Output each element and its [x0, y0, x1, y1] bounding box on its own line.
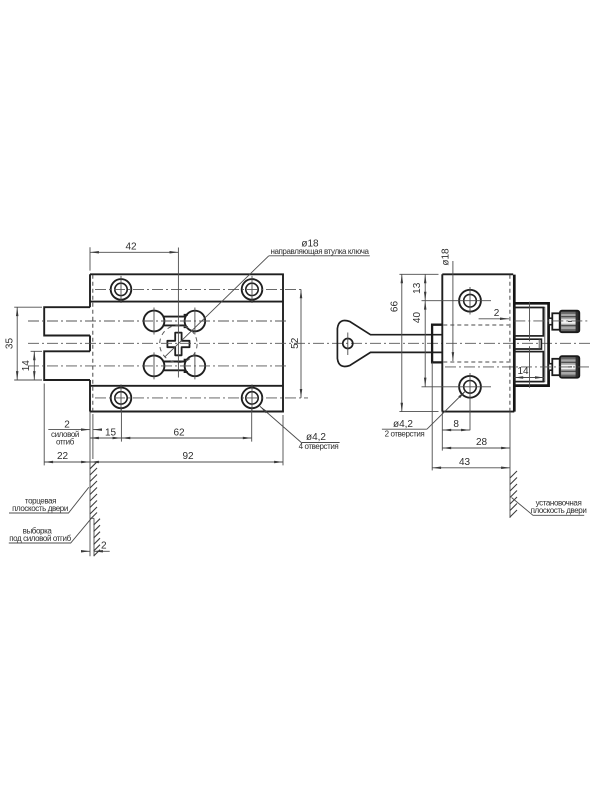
svg-text:15: 15	[105, 427, 117, 438]
svg-text:35: 35	[5, 338, 16, 350]
svg-text:52: 52	[290, 337, 301, 349]
svg-text:2: 2	[64, 420, 70, 431]
svg-text:плоскость двери: плоскость двери	[12, 504, 68, 513]
svg-text:14: 14	[517, 366, 529, 377]
svg-text:28: 28	[476, 437, 488, 448]
svg-text:22: 22	[57, 451, 69, 462]
svg-text:42: 42	[125, 242, 137, 253]
svg-text:2: 2	[494, 308, 500, 319]
svg-text:ø4,2: ø4,2	[393, 419, 413, 430]
svg-text:ø18: ø18	[440, 248, 451, 266]
svg-text:62: 62	[173, 427, 185, 438]
svg-text:2: 2	[101, 541, 107, 552]
svg-text:под силовой отгиб: под силовой отгиб	[9, 534, 71, 543]
svg-text:14: 14	[21, 360, 32, 372]
svg-text:40: 40	[412, 312, 423, 324]
svg-text:92: 92	[182, 451, 194, 462]
svg-text:плоскость двери: плоскость двери	[531, 506, 587, 515]
svg-text:43: 43	[459, 457, 471, 468]
svg-text:2 отверстия: 2 отверстия	[385, 430, 425, 439]
svg-text:отгиб: отгиб	[56, 438, 75, 447]
svg-text:направляющая втулка ключа: направляющая втулка ключа	[270, 247, 369, 256]
svg-text:4 отверстия: 4 отверстия	[299, 442, 339, 451]
svg-text:8: 8	[453, 419, 459, 430]
svg-text:66: 66	[389, 301, 400, 313]
svg-text:13: 13	[412, 282, 423, 294]
